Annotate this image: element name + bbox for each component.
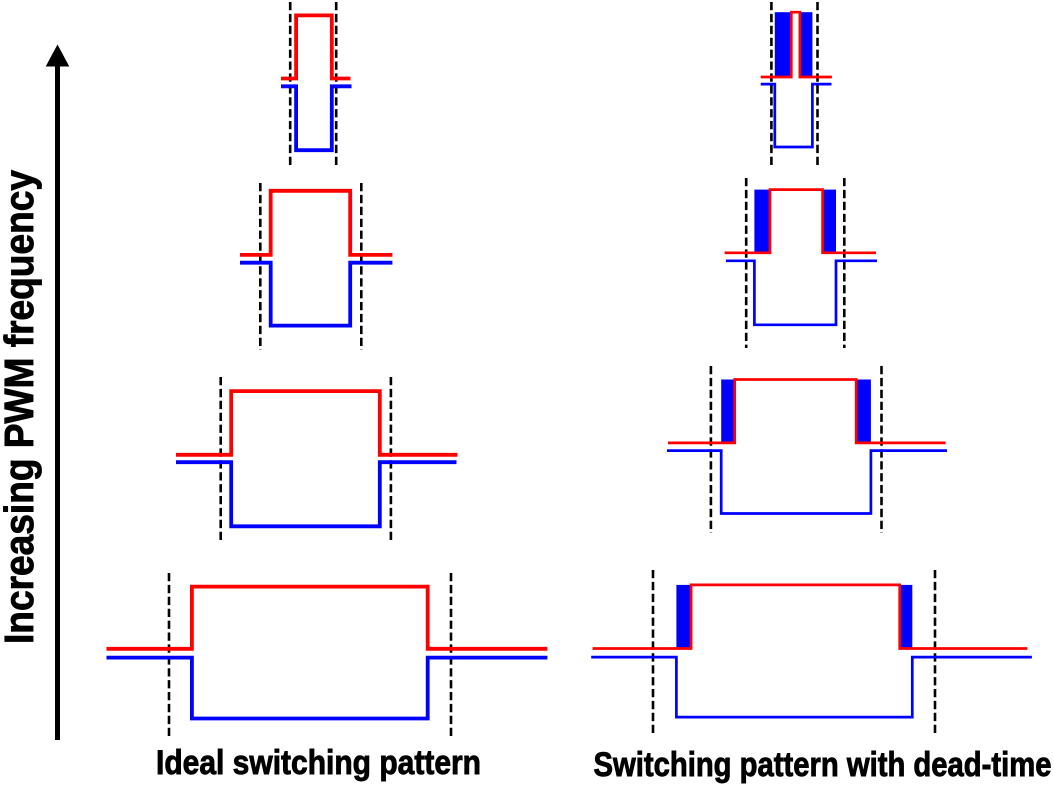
axis arrow head bbox=[46, 45, 70, 67]
row3-right red upper waveform bbox=[668, 380, 946, 443]
row1-right dashed line right bbox=[816, 2, 819, 168]
row1-left dashed line left bbox=[289, 2, 292, 168]
row4-right dead-time fill right bbox=[900, 585, 913, 649]
row3-right dashed line left bbox=[710, 366, 713, 533]
row1-left dashed line right bbox=[335, 2, 338, 168]
row4-left dashed line left bbox=[168, 573, 171, 737]
row1-left blue lower waveform bbox=[281, 86, 352, 150]
row3-left red upper waveform bbox=[176, 391, 458, 455]
row3-left dashed line right bbox=[390, 377, 393, 544]
row1-left red upper waveform bbox=[281, 15, 351, 78]
row3-right dead-time fill right bbox=[856, 380, 871, 443]
row2-right dashed line left bbox=[745, 178, 748, 348]
row4-right dashed line right bbox=[934, 570, 937, 736]
svg-text:Ideal switching pattern: Ideal switching pattern bbox=[156, 744, 481, 782]
row2-right blue lower waveform bbox=[726, 261, 877, 325]
row3-right blue lower waveform bbox=[667, 451, 947, 514]
row4-right dead-time fill left bbox=[676, 585, 691, 649]
row2-right dead-time fill left bbox=[754, 190, 770, 253]
axis arrow shaft (increasing PWM frequency) bbox=[55, 63, 60, 740]
row3-right dead-time fill left bbox=[721, 380, 735, 443]
row4-right blue lower waveform bbox=[591, 657, 1032, 717]
row1-right red upper waveform bbox=[761, 12, 832, 77]
row1-right dead-time fill right bbox=[800, 12, 813, 77]
row4-right dashed line left bbox=[652, 570, 655, 736]
svg-text:Switching pattern with dead-ti: Switching pattern with dead-time bbox=[594, 746, 1052, 784]
row2-right red upper waveform bbox=[725, 190, 876, 253]
row2-right dead-time fill right bbox=[823, 190, 836, 253]
row2-left blue lower waveform bbox=[240, 263, 392, 326]
row4-left blue lower waveform bbox=[107, 658, 548, 719]
svg-text:Increasing PWM frequency: Increasing PWM frequency bbox=[0, 170, 42, 644]
row4-left red upper waveform bbox=[107, 587, 548, 649]
row3-left dashed line left bbox=[219, 377, 222, 544]
row4-left dashed line right bbox=[450, 573, 453, 737]
row1-right blue lower waveform bbox=[761, 84, 832, 147]
row1-right dead-time fill left bbox=[775, 12, 792, 77]
row2-left dashed line left bbox=[259, 183, 262, 350]
row2-left dashed line right bbox=[360, 183, 363, 350]
row2-right dashed line right bbox=[843, 178, 846, 348]
row1-right dashed line left bbox=[770, 2, 773, 168]
row3-right dashed line right bbox=[880, 366, 883, 533]
row4-right red upper waveform bbox=[593, 585, 1028, 649]
row2-left red upper waveform bbox=[240, 191, 392, 255]
row3-left blue lower waveform bbox=[176, 462, 457, 526]
